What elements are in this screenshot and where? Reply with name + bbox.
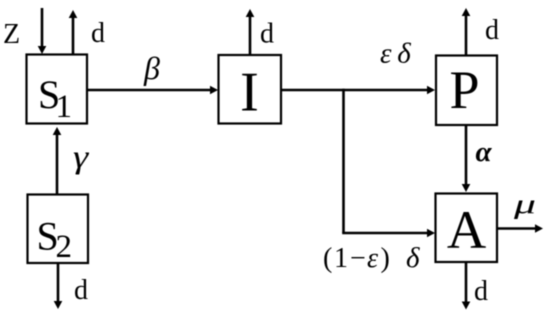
wire branch vertical from I-P line: [342, 89, 345, 233]
svg-text:Z: Z: [3, 19, 20, 50]
svg-text:1: 1: [334, 243, 348, 274]
box P: [436, 56, 497, 126]
arrow d out of S1 top: [69, 10, 78, 54]
svg-text:β: β: [143, 50, 160, 86]
arrow d out of I top: [246, 9, 255, 55]
svg-text:d: d: [474, 276, 488, 307]
arrow d out of A bottom: [462, 262, 471, 310]
svg-text:2: 2: [56, 229, 73, 265]
arrow gamma S2 to S1: [53, 127, 62, 194]
arrow branch to A: [342, 229, 435, 238]
arrow Z into S1: [38, 8, 47, 54]
svg-text:d: d: [74, 275, 88, 306]
box A: [436, 194, 498, 263]
svg-text:α: α: [476, 136, 493, 168]
svg-text:−: −: [350, 243, 366, 274]
svg-text:d: d: [260, 19, 274, 50]
svg-text:1: 1: [56, 89, 73, 125]
arrow d out of S2 bottom: [54, 263, 63, 309]
svg-text:d: d: [91, 18, 105, 49]
svg-text:P: P: [449, 60, 479, 120]
box S1: [27, 55, 88, 126]
box I: [219, 55, 282, 124]
svg-text:(: (: [323, 243, 332, 274]
svg-text:ε: ε: [367, 243, 378, 274]
box S2: [28, 195, 89, 266]
svg-text:d: d: [485, 15, 499, 46]
svg-text:): ): [381, 243, 390, 274]
arrow alpha P to A: [462, 125, 471, 192]
arrow d out of P top: [462, 8, 471, 55]
svg-text:μ: μ: [513, 189, 536, 219]
svg-text:γ: γ: [73, 138, 89, 175]
arrow mu out of A right: [497, 224, 543, 233]
svg-text:δ: δ: [406, 242, 420, 274]
arrow I to P: [281, 86, 435, 95]
svg-text:I: I: [240, 62, 259, 124]
svg-text:A: A: [447, 199, 486, 260]
arrow beta S1 to I: [87, 86, 218, 95]
svg-text:ε δ: ε δ: [380, 38, 411, 70]
